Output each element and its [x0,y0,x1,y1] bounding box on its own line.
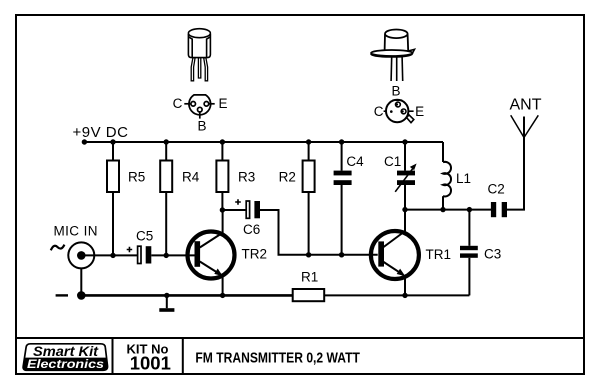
resistor R3 [221,142,223,161]
wire TR2 collector up [222,210,224,233]
TO-39 label E tick [408,110,413,112]
node mic wire R5 [110,253,115,258]
node L1 bottom [440,207,445,212]
TO-39 tab [407,115,414,123]
svg-text:MIC IN: MIC IN [54,224,98,239]
minus symbol [56,294,68,296]
svg-text:+9V DC: +9V DC [73,124,129,141]
TO-92 bottom view outline [189,95,211,115]
TO-39 metal can package (top-right) body [371,30,415,57]
wire TR1 collector up [404,210,406,232]
TO-92 pin E tick [209,103,215,105]
resistor R5 [112,142,114,161]
capacitor C4 [341,142,343,171]
svg-text:C: C [173,96,183,111]
svg-text:Electronics: Electronics [27,357,104,371]
svg-text:TR2: TR2 [242,247,268,262]
transistor TR1 [371,231,419,279]
TO-39 bottom view outline [386,100,408,122]
svg-text:B: B [197,118,206,133]
svg-text:C6: C6 [243,222,260,237]
node rail R2 [306,139,311,144]
TO-92 pin E circle [204,102,209,107]
node C1/TR1 collector [402,207,407,212]
resistor R1 [293,289,325,301]
TO-39 pin B circle [396,102,401,107]
wire C6 to TR1 base [260,210,378,255]
svg-text:R5: R5 [128,170,145,185]
title block divider 1 [112,338,114,374]
svg-text:ANT: ANT [510,97,542,114]
wire tank node row [405,209,491,211]
svg-text:R4: R4 [182,170,200,185]
node base wire R2 [306,252,311,257]
wire mic ground stub [80,268,82,295]
TO-92 pin C tick [184,103,190,105]
TO-92 pin B circle [198,107,203,112]
antenna symbol [511,115,539,137]
svg-text:R3: R3 [238,170,255,185]
variable capacitor C1 [404,142,406,171]
ground symbol [166,295,168,308]
capacitor C3 [468,210,470,246]
capacitor C6 [246,201,249,218]
capacitor C2 [491,202,496,217]
node rail C4 [339,139,344,144]
svg-text:C5: C5 [136,229,153,244]
node mic minus [77,291,86,300]
wire C2 to antenna [507,117,524,210]
svg-text:R1: R1 [301,270,318,285]
TO-92 pin B tick [199,112,201,119]
svg-text:1001: 1001 [130,352,171,373]
svg-text:TR1: TR1 [426,247,452,262]
node rail R4 [164,139,169,144]
node mic wire R4 [164,253,169,258]
mic connector [68,242,94,268]
TO-92 pin C circle [191,102,196,107]
capacitor C5 [138,246,141,263]
node rail terminal [82,139,87,144]
svg-text:C2: C2 [488,182,505,197]
svg-text:C1: C1 [384,154,401,169]
wire +9V rail [84,141,443,143]
svg-text:E: E [415,104,424,119]
Smart Kit logo outline [23,344,107,371]
node ground stub [164,293,169,298]
inductor L1 [442,142,444,162]
svg-text:C4: C4 [346,154,364,169]
svg-text:FM TRANSMITTER 0,2 WATT: FM TRANSMITTER 0,2 WATT [195,349,360,366]
node base wire C4 [339,252,344,257]
svg-text:C3: C3 [484,247,501,262]
resistor R2 [308,142,310,161]
title block divider 2 [182,338,184,374]
TO-39 pin C dot [390,110,393,113]
node TR2 emitter ground [220,293,225,298]
TO-39 leads [391,57,403,81]
wire ground rail left [81,294,292,297]
TO-39 label C tick [384,110,387,112]
transistor TR2 [188,232,235,279]
capacitor C6 plus sign [235,199,241,205]
node rail C1 [402,139,407,144]
node rail R5 [110,139,115,144]
svg-text:E: E [218,96,227,111]
wire R1 to C3 bottom [324,294,469,296]
svg-text:C: C [374,104,384,119]
svg-text:B: B [391,84,400,99]
wire mic to TR2 base [81,254,137,256]
Smart Kit logo black band [23,358,108,371]
ac tilde symbol [51,245,65,251]
wire TR2 emitter down [222,276,224,295]
title block separator [16,337,584,339]
wire TR1 emitter down [404,276,406,295]
wire collector node to C6 [222,209,245,211]
node TR2 collector junction [220,207,225,212]
TO-39 pin E circle [401,109,406,114]
capacitor C5 plus sign [127,247,133,253]
svg-text:L1: L1 [456,171,471,186]
TO-92 package (top-left) body [188,29,210,58]
node rail R3 [220,139,225,144]
node C3 branch [467,207,472,212]
node TR1 emitter ground [402,293,407,298]
TO-92 leads [191,58,207,81]
svg-text:R2: R2 [279,170,296,185]
resistor R4 [165,142,167,161]
